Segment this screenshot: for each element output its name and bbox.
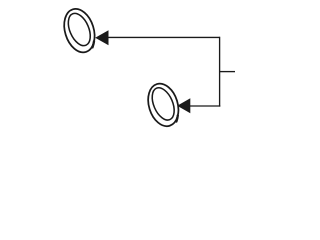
- rim junction bottom o-ring: [176, 115, 178, 122]
- wire right vertical: [219, 37, 221, 107]
- wire bottom horizontal: [190, 105, 220, 107]
- arrow to top o-ring: [95, 30, 108, 45]
- wire stub tick: [220, 71, 235, 73]
- o-ring seal bottom: inner hole: [148, 85, 179, 124]
- arrow to bottom o-ring: [177, 98, 190, 113]
- wire top horizontal: [109, 36, 220, 38]
- o-ring seal top: inner hole: [64, 10, 95, 49]
- o-ring seal top: outer profile: [59, 5, 100, 56]
- o-ring seal bottom: outer profile: [143, 80, 183, 130]
- rim junction top o-ring: [92, 41, 94, 49]
